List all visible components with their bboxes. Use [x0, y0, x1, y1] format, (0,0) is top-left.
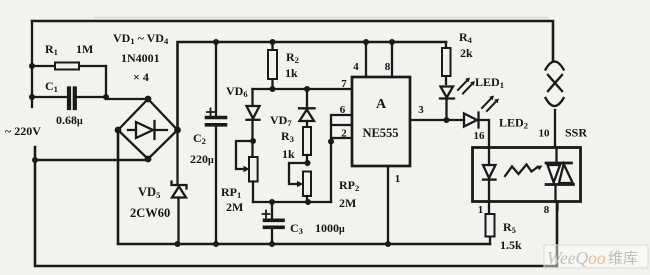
capacitor C3 [263, 202, 284, 244]
svg-text:2: 2 [341, 128, 347, 140]
watermark box [544, 245, 648, 268]
wire R1/C1 right node down to bridge top [106, 66, 148, 99]
node C3 top [269, 199, 275, 205]
resistor R3 [303, 127, 311, 163]
node C2 top [213, 39, 219, 45]
node pin2 junction [328, 139, 334, 145]
node AC lower [32, 157, 38, 163]
svg-text:VD1 ~ VD4: VD1 ~ VD4 [113, 31, 169, 46]
wire bridge plus (right vertex) up to DC rail [178, 42, 447, 130]
svg-text:LED2: LED2 [499, 116, 528, 131]
svg-text:0.68μ: 0.68μ [56, 113, 83, 127]
LED1 emission arrows [458, 78, 475, 94]
wire pin4 [365, 42, 367, 77]
wire AC lower terminal to bridge bottom vertex [35, 147, 148, 160]
svg-text:1000μ: 1000μ [315, 221, 345, 235]
lamp [546, 62, 564, 148]
optocoupler SSR box [473, 148, 581, 202]
svg-text:2M: 2M [226, 200, 243, 214]
wire pin7 line [253, 88, 353, 90]
svg-text:2M: 2M [339, 196, 356, 210]
svg-text:220μ: 220μ [190, 152, 214, 166]
diode VD7 [299, 89, 315, 127]
node pin3 junction [444, 117, 450, 123]
node pin8 [389, 39, 395, 45]
node RP1 wiper [250, 138, 256, 144]
opto light squiggle arrow [505, 165, 543, 177]
wire left vertical from top corner to upper AC terminal [31, 21, 33, 107]
opto LED [483, 148, 496, 202]
wire pin3 [410, 119, 447, 121]
svg-text:3: 3 [418, 104, 424, 116]
svg-text:1k: 1k [282, 147, 295, 161]
bridge rectifier VD1-VD4 [115, 96, 181, 163]
node VD7 top [304, 86, 310, 92]
capacitor C2 [207, 42, 226, 244]
resistor R2 [268, 42, 277, 89]
node C2 ground [213, 241, 219, 247]
node C1 left [29, 94, 35, 100]
potentiometer RP1 [236, 141, 258, 202]
svg-text:NE555: NE555 [362, 126, 398, 140]
node R2 bottom [270, 86, 276, 92]
svg-text:16: 16 [474, 130, 486, 142]
svg-text:1N4001: 1N4001 [121, 51, 160, 65]
wire pins 6 and 2 to timing node [331, 115, 352, 202]
capacitor C1 [32, 89, 106, 109]
svg-text:1M: 1M [76, 42, 93, 56]
LED1 [440, 87, 454, 121]
wire top AC bus from left corner to lamp [32, 21, 553, 60]
svg-text:1: 1 [478, 204, 484, 216]
node zener ground [175, 241, 181, 247]
svg-text:1k: 1k [285, 66, 298, 80]
resistor R1 [32, 63, 106, 70]
node C3 ground [269, 241, 275, 247]
wire triac pin8 below box [556, 202, 558, 211]
svg-text:A: A [376, 97, 387, 112]
node R1 left [29, 63, 35, 69]
resistor R4 [442, 42, 451, 84]
svg-text:7: 7 [341, 78, 347, 90]
svg-text:维库: 维库 [608, 250, 638, 267]
node pin4 [363, 39, 369, 45]
op-amp U1 NE555 box [352, 77, 410, 166]
node R3 bottom [305, 160, 311, 166]
svg-text:2k: 2k [460, 46, 473, 60]
resistor R5 [486, 202, 495, 245]
LED2 [447, 113, 490, 148]
potentiometer RP2 [289, 163, 311, 202]
wire pin8 [391, 42, 393, 77]
svg-text:LED1: LED1 [475, 75, 504, 90]
svg-text:1.5k: 1.5k [500, 238, 522, 252]
svg-text:10: 10 [539, 128, 551, 140]
wire timing bottom line [253, 201, 331, 203]
node RP2 bottom [305, 199, 311, 205]
svg-text:~ 220V: ~ 220V [5, 124, 41, 138]
LED2 emission arrows [482, 96, 499, 112]
svg-text:8: 8 [544, 204, 550, 216]
svg-text:2CW60: 2CW60 [130, 206, 170, 220]
svg-text:6: 6 [340, 104, 346, 116]
wire pin1 to ground [387, 166, 389, 244]
scan artifact above top wire [95, 17, 548, 19]
svg-text:× 4: × 4 [133, 70, 149, 84]
node pin1 ground [385, 241, 391, 247]
svg-text:8: 8 [385, 61, 391, 73]
wire AC return down and along bottom to SSR pin8 [35, 160, 557, 266]
node R2 top [270, 39, 276, 45]
svg-text:SSR: SSR [565, 126, 587, 140]
node C1 right [103, 94, 109, 100]
svg-text:1: 1 [395, 173, 401, 185]
svg-text:4: 4 [353, 61, 359, 73]
zener VD5 [172, 130, 187, 244]
triac [546, 148, 574, 202]
svg-text:WeeQoo: WeeQoo [547, 248, 606, 268]
wire bridge minus (left vertex) down to ground rail [118, 130, 490, 244]
diode VD6 [247, 89, 260, 157]
